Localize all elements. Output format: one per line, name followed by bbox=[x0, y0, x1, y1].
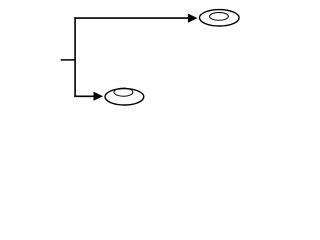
arrowhead: top branch bbox=[188, 14, 198, 23]
wire: vertical spine bbox=[74, 17, 76, 97]
arrowhead: bottom branch bbox=[94, 92, 104, 101]
wire: top branch bbox=[74, 17, 189, 19]
node: top inner ellipse bbox=[210, 13, 229, 21]
node: top outer ellipse bbox=[200, 10, 240, 26]
node: bottom outer ellipse bbox=[105, 89, 144, 105]
wire: bottom branch bbox=[74, 95, 94, 97]
node: bottom inner ellipse bbox=[114, 88, 133, 96]
wire: left stub to parent bbox=[61, 59, 75, 61]
